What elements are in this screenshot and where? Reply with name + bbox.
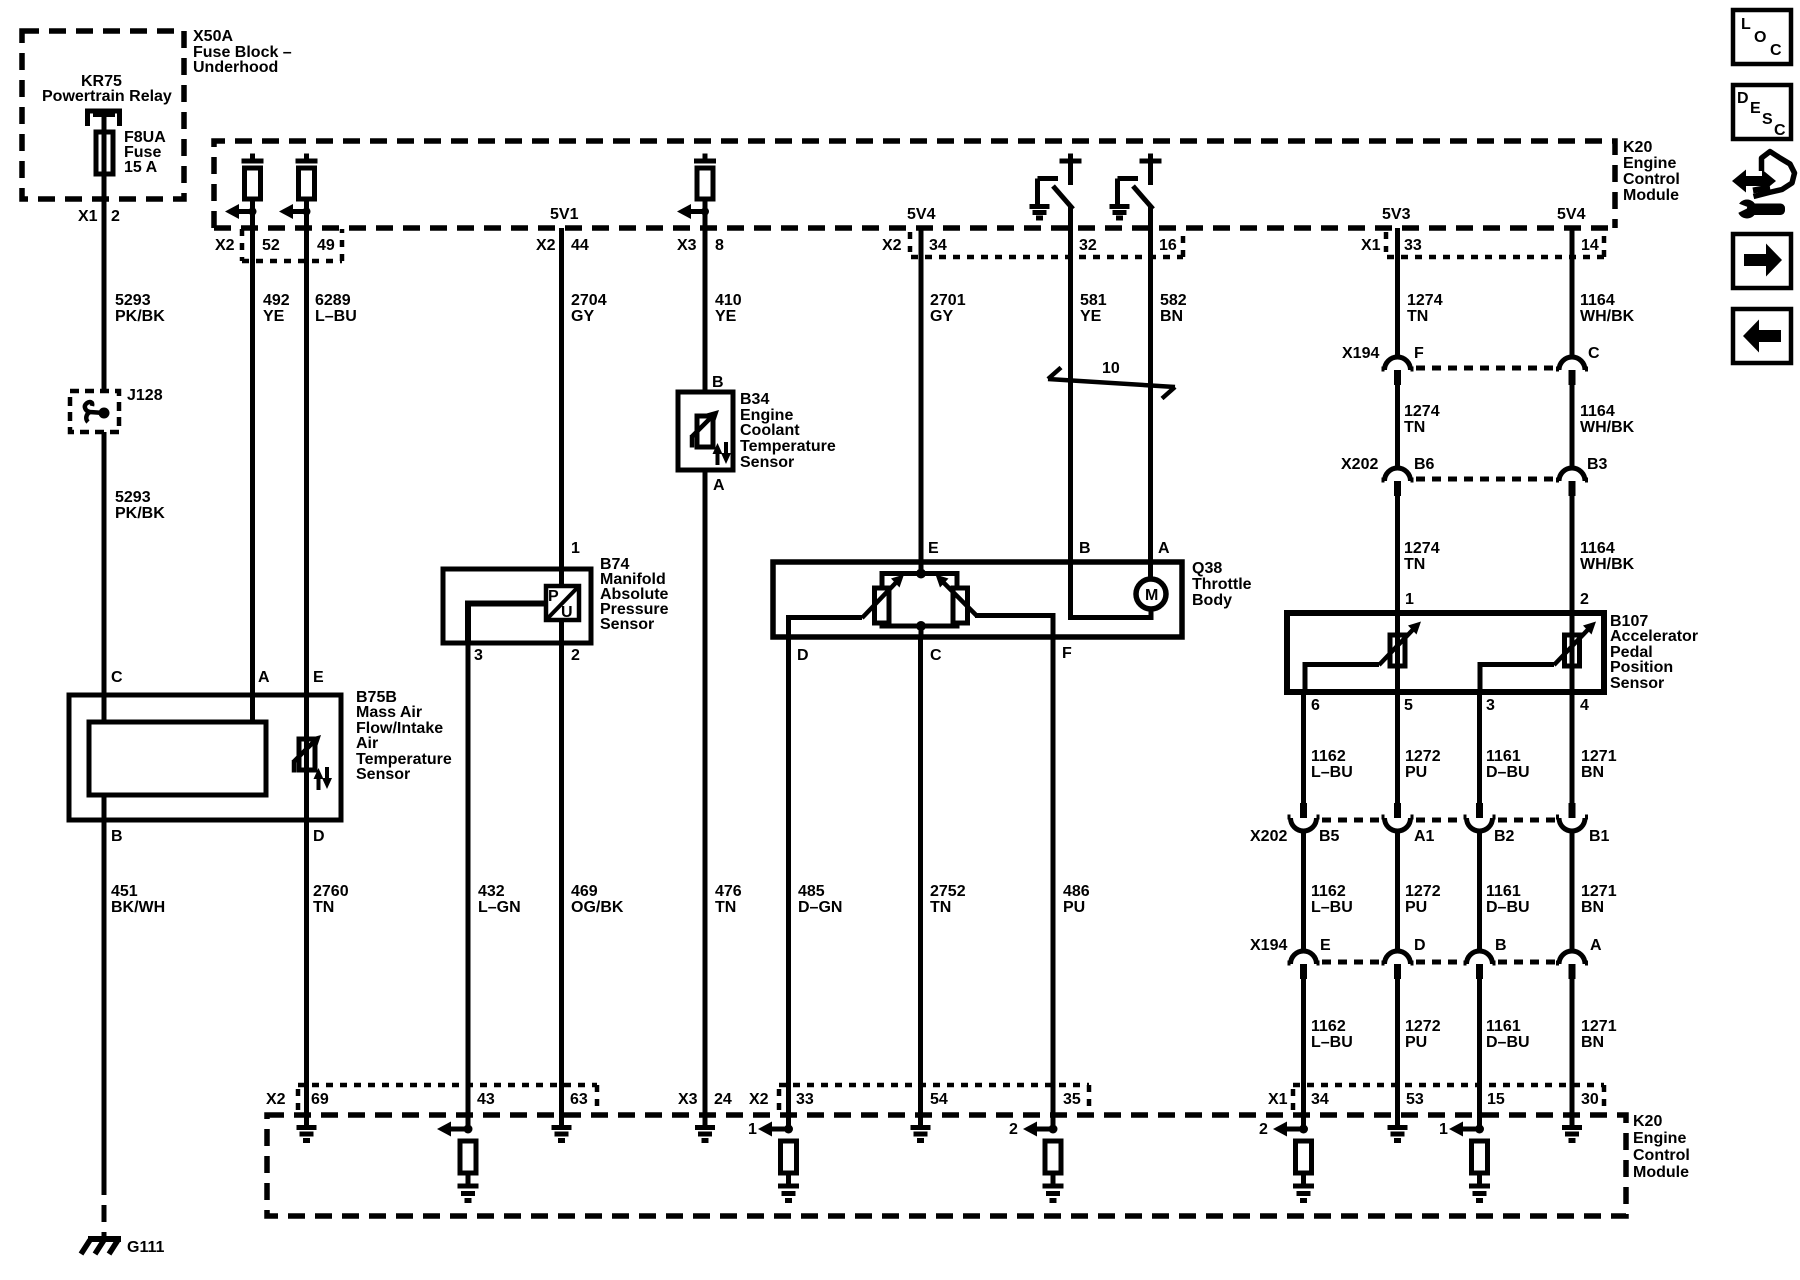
svg-text:D–GN: D–GN bbox=[798, 899, 842, 916]
svg-text:451: 451 bbox=[111, 883, 138, 900]
svg-text:Engine: Engine bbox=[1633, 1130, 1686, 1147]
fuse F8UA bbox=[96, 132, 113, 174]
svg-text:1161: 1161 bbox=[1486, 1018, 1521, 1035]
ground at pin 69 bbox=[297, 1128, 317, 1141]
wire APP 6 down to X202 B5 bbox=[1301, 692, 1306, 803]
connector X194 A bbox=[1556, 951, 1588, 964]
svg-text:Sensor: Sensor bbox=[356, 766, 410, 783]
svg-text:Module: Module bbox=[1623, 187, 1679, 204]
svg-text:A: A bbox=[1158, 540, 1170, 557]
potentiometer APP1 bbox=[1390, 635, 1405, 666]
svg-text:A1: A1 bbox=[1414, 828, 1435, 845]
svg-text:476: 476 bbox=[715, 883, 742, 900]
nav button LOC bbox=[1733, 10, 1791, 64]
fuse block X50A dashed box bbox=[22, 31, 184, 199]
dashed link X202 row1 bbox=[1416, 477, 1556, 482]
wire D to ECM 53 bbox=[1395, 979, 1400, 1127]
connector strip X2 52 49 dotted bbox=[242, 229, 342, 261]
svg-text:1: 1 bbox=[1405, 591, 1414, 608]
svg-text:24: 24 bbox=[714, 1091, 732, 1108]
svg-text:L–BU: L–BU bbox=[1311, 764, 1353, 781]
svg-text:TN: TN bbox=[1407, 308, 1428, 325]
svg-text:F: F bbox=[1414, 345, 1424, 362]
ground at pin 30 bbox=[1562, 1128, 1582, 1141]
svg-text:A: A bbox=[1590, 937, 1602, 954]
wire A to ECM 30 bbox=[1570, 979, 1575, 1127]
svg-text:B: B bbox=[111, 828, 123, 845]
wire B1 to X194 A bbox=[1570, 831, 1575, 951]
wire B3 to APP 2 bbox=[1570, 496, 1575, 613]
connector strip X1 33 14 dotted bbox=[1386, 232, 1604, 257]
svg-text:1271: 1271 bbox=[1581, 883, 1617, 900]
svg-text:1162: 1162 bbox=[1311, 883, 1346, 900]
svg-text:53: 53 bbox=[1406, 1091, 1424, 1108]
wire E to ECM 34 bbox=[1301, 979, 1306, 1129]
svg-text:432: 432 bbox=[478, 883, 505, 900]
wire MAP 3 to ECM 43 bbox=[466, 641, 471, 1129]
wire pin 16 to throttle A bbox=[1148, 207, 1153, 573]
ECM bottom dashed box K20 bbox=[267, 1115, 1626, 1216]
svg-text:D: D bbox=[797, 647, 809, 664]
wire pin 52 to MAF A bbox=[250, 199, 255, 722]
wire B5 to X194 E bbox=[1301, 831, 1306, 951]
svg-text:6: 6 bbox=[1311, 697, 1320, 714]
svg-text:TN: TN bbox=[1404, 556, 1425, 573]
wire B to ECM 15 bbox=[1477, 979, 1482, 1129]
svg-text:34: 34 bbox=[1311, 1091, 1329, 1108]
svg-text:35: 35 bbox=[1063, 1091, 1081, 1108]
svg-text:A: A bbox=[713, 477, 725, 494]
wire pin 32 to throttle B bbox=[1068, 207, 1073, 573]
svg-text:2: 2 bbox=[111, 208, 120, 225]
motor M circle bbox=[1136, 579, 1166, 609]
nav button back arrow bbox=[1733, 309, 1791, 363]
svg-text:14: 14 bbox=[1581, 237, 1599, 254]
svg-text:15: 15 bbox=[1487, 1091, 1505, 1108]
svg-text:WH/BK: WH/BK bbox=[1580, 308, 1635, 325]
svg-text:10: 10 bbox=[1102, 360, 1120, 377]
svg-text:BN: BN bbox=[1581, 899, 1604, 916]
connector strip X2 69 43 63 dotted bbox=[298, 1085, 597, 1110]
svg-text:F: F bbox=[1062, 645, 1072, 662]
svg-text:S: S bbox=[1762, 111, 1773, 128]
wire MAP pin 2 down bbox=[559, 620, 564, 641]
switch to ground in ECM pin 32 bbox=[1038, 154, 1082, 207]
wire throttle D to ECM 33 bbox=[786, 637, 791, 1129]
splice J128 dashed box bbox=[70, 391, 119, 432]
fuse in ECM pin 49 bbox=[296, 154, 318, 164]
svg-text:B34: B34 bbox=[740, 391, 769, 408]
wire APP pin1 to pin5 through pot bbox=[1395, 613, 1400, 692]
svg-text:X2: X2 bbox=[215, 237, 235, 254]
wire APP 4 down to X202 B1 bbox=[1570, 692, 1575, 803]
svg-text:1: 1 bbox=[1439, 1121, 1448, 1138]
wire 5V3 pin 33 to X194 F bbox=[1395, 228, 1400, 358]
svg-text:1: 1 bbox=[571, 540, 580, 557]
fuse in ECM pin X3 8 bbox=[694, 154, 716, 164]
svg-text:1272: 1272 bbox=[1405, 1018, 1441, 1035]
wire MAP internal pin 3 bbox=[468, 604, 546, 642]
P/U element in B74 bbox=[546, 586, 579, 620]
svg-text:X2: X2 bbox=[882, 237, 902, 254]
throttle body Q38 box bbox=[773, 562, 1182, 637]
sensor B75B MAF outer box bbox=[69, 695, 341, 820]
ECM top dashed box K20 bbox=[214, 141, 1615, 228]
connector X202 B5 bbox=[1300, 803, 1307, 818]
ground at pin 24 bbox=[695, 1128, 715, 1141]
potentiometer APP2 bbox=[1565, 635, 1580, 666]
wire 5V4 pin 34 to throttle E bbox=[919, 228, 924, 573]
svg-text:TN: TN bbox=[1404, 419, 1425, 436]
svg-text:X2: X2 bbox=[749, 1091, 769, 1108]
svg-text:6289: 6289 bbox=[315, 292, 351, 309]
svg-text:M: M bbox=[1145, 587, 1158, 604]
svg-text:2752: 2752 bbox=[930, 883, 966, 900]
svg-text:O: O bbox=[1754, 29, 1766, 46]
wire C to B3 bbox=[1570, 385, 1575, 469]
svg-text:2701: 2701 bbox=[930, 292, 966, 309]
svg-text:63: 63 bbox=[570, 1091, 588, 1108]
svg-text:X194: X194 bbox=[1342, 345, 1379, 362]
svg-text:B5: B5 bbox=[1319, 828, 1340, 845]
svg-text:54: 54 bbox=[930, 1091, 948, 1108]
svg-text:C: C bbox=[1774, 122, 1786, 139]
wire A1 to X194 D bbox=[1395, 831, 1400, 951]
svg-text:1272: 1272 bbox=[1405, 748, 1441, 765]
svg-text:YE: YE bbox=[715, 308, 737, 325]
connector X202 B6 bbox=[1382, 468, 1414, 481]
svg-text:1161: 1161 bbox=[1486, 748, 1521, 765]
svg-text:486: 486 bbox=[1063, 883, 1090, 900]
svg-text:YE: YE bbox=[1080, 308, 1102, 325]
nav icon schematic navigation bbox=[1732, 170, 1776, 193]
svg-text:E: E bbox=[1320, 937, 1331, 954]
svg-text:X2: X2 bbox=[266, 1091, 286, 1108]
svg-text:Sensor: Sensor bbox=[740, 454, 794, 471]
wire dashed segment to G111 bbox=[102, 1178, 107, 1239]
svg-text:Q38: Q38 bbox=[1192, 560, 1222, 577]
svg-text:5V1: 5V1 bbox=[550, 206, 579, 223]
svg-text:34: 34 bbox=[929, 237, 947, 254]
wire TPS loop bottom bbox=[882, 623, 957, 626]
svg-text:Powertrain Relay: Powertrain Relay bbox=[42, 88, 172, 105]
wire 5V4 pin 14 to X194 C bbox=[1570, 228, 1575, 358]
svg-text:Module: Module bbox=[1633, 1164, 1689, 1181]
svg-text:Underhood: Underhood bbox=[193, 59, 278, 76]
wire ECT A to ECM pin 24 bbox=[703, 470, 708, 1127]
svg-text:X202: X202 bbox=[1250, 828, 1287, 845]
svg-text:A: A bbox=[258, 669, 270, 686]
wire throttle F to ECM 35 bbox=[1051, 637, 1056, 1129]
svg-text:Control: Control bbox=[1633, 1147, 1690, 1164]
sensor B34 ECT box bbox=[678, 392, 733, 470]
node C junction bbox=[916, 621, 926, 631]
relay KR75 contact symbol bbox=[85, 111, 122, 126]
svg-text:Sensor: Sensor bbox=[600, 616, 654, 633]
svg-text:C: C bbox=[1770, 42, 1782, 59]
svg-text:C: C bbox=[930, 647, 942, 664]
svg-text:30: 30 bbox=[1581, 1091, 1599, 1108]
wire APP pin2 to pin4 through pot bbox=[1570, 613, 1575, 692]
dashed links X202 row2 bbox=[1322, 818, 1556, 823]
wire MAP 2 to ECM 63 bbox=[559, 641, 564, 1127]
svg-text:TN: TN bbox=[715, 899, 736, 916]
svg-text:X194: X194 bbox=[1250, 937, 1287, 954]
svg-text:X1: X1 bbox=[1361, 237, 1381, 254]
svg-text:485: 485 bbox=[798, 883, 825, 900]
sensor B75B inner element box bbox=[89, 722, 266, 795]
svg-text:1162: 1162 bbox=[1311, 1018, 1346, 1035]
wire throttle C to ECM 54 bbox=[918, 637, 923, 1127]
svg-text:2760: 2760 bbox=[313, 883, 349, 900]
svg-text:D: D bbox=[1414, 937, 1426, 954]
svg-text:Coolant: Coolant bbox=[740, 422, 800, 439]
svg-text:B1: B1 bbox=[1589, 828, 1610, 845]
wire APP pin 6 feed bbox=[1305, 665, 1379, 693]
svg-text:Sensor: Sensor bbox=[1610, 675, 1664, 692]
connector X194 E bbox=[1288, 951, 1320, 964]
svg-text:X3: X3 bbox=[678, 1091, 698, 1108]
connector strip X1 34 53 15 30 dotted bbox=[1293, 1085, 1604, 1110]
switch to ground in ECM pin 16 bbox=[1118, 154, 1162, 207]
svg-text:X1: X1 bbox=[1268, 1091, 1288, 1108]
connector X202 B2 bbox=[1476, 803, 1483, 818]
ground at pin 63 bbox=[552, 1128, 572, 1141]
svg-text:49: 49 bbox=[317, 237, 335, 254]
svg-text:33: 33 bbox=[796, 1091, 814, 1108]
arrow and resistor to ground at pin 43 bbox=[464, 1125, 473, 1134]
svg-text:33: 33 bbox=[1404, 237, 1422, 254]
svg-text:X50A: X50A bbox=[193, 28, 233, 45]
svg-text:BN: BN bbox=[1581, 1034, 1604, 1051]
svg-text:2: 2 bbox=[1580, 591, 1589, 608]
ground at switch 32 bbox=[1030, 207, 1050, 219]
svg-text:D–BU: D–BU bbox=[1486, 899, 1530, 916]
svg-text:32: 32 bbox=[1079, 237, 1097, 254]
svg-text:PK/BK: PK/BK bbox=[115, 308, 165, 325]
wire TPS loop top bbox=[882, 574, 957, 589]
svg-text:43: 43 bbox=[477, 1091, 495, 1108]
nav button forward arrow bbox=[1733, 234, 1791, 288]
svg-text:5V3: 5V3 bbox=[1382, 206, 1411, 223]
svg-text:D–BU: D–BU bbox=[1486, 764, 1530, 781]
svg-text:G111: G111 bbox=[127, 1239, 164, 1256]
svg-text:B6: B6 bbox=[1414, 456, 1435, 473]
wire B6 to APP 1 bbox=[1395, 496, 1400, 613]
wire pin 49 to MAF E and D to ECM pin 69 bbox=[304, 199, 309, 1127]
ground at pin 53 bbox=[1388, 1128, 1408, 1141]
wire throttle D feed bbox=[789, 618, 863, 638]
wire throttle F feed bbox=[975, 616, 1053, 638]
svg-text:Position: Position bbox=[1610, 659, 1673, 676]
svg-text:3: 3 bbox=[1486, 697, 1495, 714]
annotation 10 crossing arrows bbox=[1048, 379, 1175, 387]
svg-text:WH/BK: WH/BK bbox=[1580, 419, 1635, 436]
svg-text:B2: B2 bbox=[1494, 828, 1515, 845]
svg-text:PU: PU bbox=[1405, 899, 1427, 916]
svg-text:E: E bbox=[928, 540, 939, 557]
connector X194 D bbox=[1382, 951, 1414, 964]
ground at switch 16 bbox=[1110, 207, 1130, 219]
svg-text:L–BU: L–BU bbox=[1311, 1034, 1353, 1051]
svg-text:P: P bbox=[548, 588, 559, 605]
svg-text:GY: GY bbox=[930, 308, 953, 325]
svg-text:GY: GY bbox=[571, 308, 594, 325]
svg-text:44: 44 bbox=[571, 237, 589, 254]
wire pin 8 to ECT B bbox=[703, 199, 708, 392]
arrow left at pin 52 fuse bbox=[225, 204, 239, 219]
accelerator pedal position sensor B107 box bbox=[1287, 613, 1604, 692]
svg-text:J128: J128 bbox=[127, 387, 163, 404]
arrow left at pin 49 fuse bbox=[279, 204, 293, 219]
thermistor element in B75B bbox=[299, 739, 315, 770]
svg-text:1164: 1164 bbox=[1580, 403, 1615, 420]
svg-text:5V4: 5V4 bbox=[907, 206, 936, 223]
ground G111 chassis symbol bbox=[88, 1236, 121, 1242]
wire relay through fuse down bbox=[102, 116, 107, 392]
dashed link X194 row1 bbox=[1416, 366, 1556, 371]
svg-text:YE: YE bbox=[263, 308, 285, 325]
svg-text:TN: TN bbox=[930, 899, 951, 916]
svg-text:1274: 1274 bbox=[1404, 403, 1440, 420]
svg-text:Accelerator: Accelerator bbox=[1610, 628, 1698, 645]
svg-text:Body: Body bbox=[1192, 592, 1232, 609]
svg-text:C: C bbox=[1588, 345, 1600, 362]
svg-text:C: C bbox=[111, 669, 123, 686]
wire motor loop B bbox=[1071, 573, 1152, 618]
wire 5V1 pin 44 to MAP 1 bbox=[559, 228, 564, 586]
svg-text:B: B bbox=[1079, 540, 1091, 557]
connector X202 B1 bbox=[1569, 803, 1576, 818]
svg-text:1274: 1274 bbox=[1404, 540, 1440, 557]
svg-text:8: 8 bbox=[715, 237, 724, 254]
dashed links X194 row2 bbox=[1322, 960, 1556, 965]
arrow left at pin 8 fuse bbox=[677, 204, 691, 219]
connector strip X2 33 54 35 dotted bbox=[779, 1085, 1089, 1110]
svg-text:X2: X2 bbox=[536, 237, 556, 254]
svg-text:BN: BN bbox=[1581, 764, 1604, 781]
svg-text:D: D bbox=[1737, 90, 1749, 107]
svg-text:Air: Air bbox=[356, 735, 378, 752]
svg-text:1: 1 bbox=[748, 1121, 757, 1138]
svg-text:OG/BK: OG/BK bbox=[571, 899, 624, 916]
svg-text:1164: 1164 bbox=[1580, 292, 1615, 309]
connector X194 C bbox=[1556, 357, 1588, 370]
svg-text:Control: Control bbox=[1623, 171, 1680, 188]
airflow arrows in B75B bbox=[317, 776, 321, 790]
svg-text:69: 69 bbox=[311, 1091, 329, 1108]
thermistor element in B34 bbox=[697, 416, 713, 447]
potentiometer TPS2 bbox=[953, 588, 968, 623]
svg-text:Mass Air: Mass Air bbox=[356, 704, 422, 721]
svg-text:Engine: Engine bbox=[1623, 155, 1676, 172]
svg-text:492: 492 bbox=[263, 292, 290, 309]
svg-text:E: E bbox=[1750, 100, 1761, 117]
svg-text:L–BU: L–BU bbox=[1311, 899, 1353, 916]
ground at pin 54 bbox=[911, 1128, 931, 1141]
svg-text:K20: K20 bbox=[1623, 139, 1652, 156]
svg-text:L: L bbox=[1741, 16, 1751, 33]
svg-text:410: 410 bbox=[715, 292, 742, 309]
svg-text:1162: 1162 bbox=[1311, 748, 1346, 765]
svg-text:X202: X202 bbox=[1341, 456, 1378, 473]
svg-text:Throttle: Throttle bbox=[1192, 576, 1252, 593]
sensor B74 MAP box bbox=[443, 569, 591, 643]
svg-text:E: E bbox=[313, 669, 324, 686]
svg-text:581: 581 bbox=[1080, 292, 1107, 309]
svg-text:TN: TN bbox=[313, 899, 334, 916]
svg-text:PK/BK: PK/BK bbox=[115, 505, 165, 522]
svg-text:1161: 1161 bbox=[1486, 883, 1521, 900]
svg-text:D: D bbox=[313, 828, 325, 845]
svg-text:582: 582 bbox=[1160, 292, 1187, 309]
node E junction bbox=[916, 569, 926, 579]
svg-text:Temperature: Temperature bbox=[740, 438, 836, 455]
connector X202 A1 bbox=[1394, 803, 1401, 818]
svg-text:U: U bbox=[561, 604, 573, 621]
potentiometer TPS1 bbox=[875, 588, 890, 623]
svg-text:1274: 1274 bbox=[1407, 292, 1443, 309]
svg-text:52: 52 bbox=[262, 237, 280, 254]
svg-text:B: B bbox=[1495, 937, 1507, 954]
svg-text:1271: 1271 bbox=[1581, 1018, 1617, 1035]
connector X194 F bbox=[1382, 357, 1414, 370]
svg-text:PU: PU bbox=[1405, 1034, 1427, 1051]
wire APP 5 down to X202 A1 bbox=[1395, 692, 1400, 803]
wire F to B6 bbox=[1395, 385, 1400, 469]
svg-text:16: 16 bbox=[1159, 237, 1177, 254]
splice J128 symbol bbox=[99, 408, 110, 419]
svg-text:5293: 5293 bbox=[115, 489, 151, 506]
connector strip X2 34 32 16 dotted bbox=[910, 232, 1183, 257]
svg-text:K20: K20 bbox=[1633, 1113, 1662, 1130]
svg-text:PU: PU bbox=[1405, 764, 1427, 781]
svg-text:5293: 5293 bbox=[115, 292, 151, 309]
svg-text:PU: PU bbox=[1063, 899, 1085, 916]
wire J128 to MAF C bbox=[102, 432, 107, 722]
svg-text:D–BU: D–BU bbox=[1486, 1034, 1530, 1051]
svg-text:5: 5 bbox=[1404, 697, 1413, 714]
svg-text:X3: X3 bbox=[677, 237, 697, 254]
svg-text:1272: 1272 bbox=[1405, 883, 1441, 900]
svg-text:2: 2 bbox=[571, 647, 580, 664]
svg-text:469: 469 bbox=[571, 883, 598, 900]
wire throttle C down in box bbox=[919, 626, 924, 637]
svg-text:B3: B3 bbox=[1587, 456, 1608, 473]
fuse in ECM pin 52 bbox=[242, 154, 264, 164]
svg-text:L–GN: L–GN bbox=[478, 899, 521, 916]
svg-text:X1: X1 bbox=[78, 208, 98, 225]
svg-text:B: B bbox=[712, 374, 724, 391]
svg-text:2704: 2704 bbox=[571, 292, 607, 309]
svg-text:BK/WH: BK/WH bbox=[111, 899, 165, 916]
svg-text:L–BU: L–BU bbox=[315, 308, 357, 325]
svg-text:BN: BN bbox=[1160, 308, 1183, 325]
svg-text:1271: 1271 bbox=[1581, 748, 1617, 765]
connector X194 B bbox=[1464, 951, 1496, 964]
svg-text:15 A: 15 A bbox=[124, 159, 158, 176]
svg-text:4: 4 bbox=[1580, 697, 1589, 714]
svg-text:5V4: 5V4 bbox=[1557, 206, 1586, 223]
svg-text:WH/BK: WH/BK bbox=[1580, 556, 1635, 573]
nav button DESC bbox=[1733, 85, 1791, 139]
svg-text:1164: 1164 bbox=[1580, 540, 1615, 557]
temp arrows in B34 bbox=[716, 451, 720, 465]
svg-text:2: 2 bbox=[1259, 1121, 1268, 1138]
connector X202 B3 bbox=[1556, 468, 1588, 481]
svg-text:2: 2 bbox=[1009, 1121, 1018, 1138]
wire MAF B down bbox=[102, 795, 107, 1178]
